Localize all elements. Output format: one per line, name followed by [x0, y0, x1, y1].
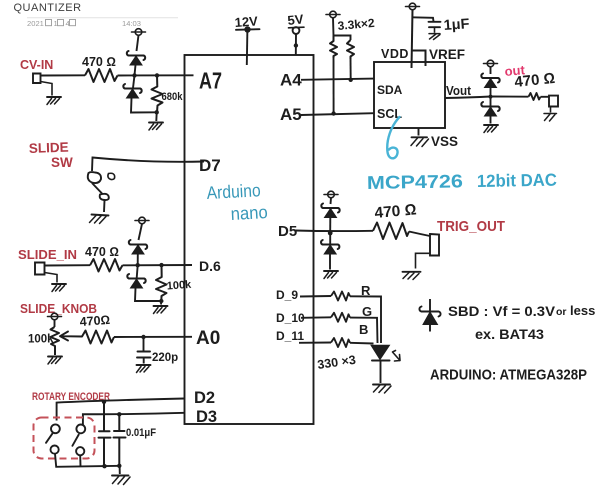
node junction dot 5V: [294, 43, 298, 47]
LED emission arrow: [393, 351, 401, 362]
svg-text:or: or: [556, 306, 567, 318]
wire D2 from encoder A: [57, 399, 185, 421]
wire node to D4 cathode: [137, 265, 138, 278]
diode D4 schottky low clamp: [127, 274, 145, 288]
wire D11 to R12: [299, 342, 331, 344]
diode D5l schottky low clamp: [481, 102, 499, 116]
ground TRIG jack: [403, 271, 421, 273]
svg-text:12bit DAC: 12bit DAC: [477, 170, 558, 191]
ground CV-IN jack: [47, 97, 61, 105]
power symbol trig clamp: [324, 191, 338, 198]
svg-text:VREF: VREF: [429, 47, 465, 62]
power symbol 5V: [289, 26, 305, 29]
svg-text:ex. BAT43: ex. BAT43: [475, 326, 544, 342]
wire C4 to ground: [434, 27, 436, 33]
ground 680k: [149, 123, 163, 131]
node junction dot 100k top: [159, 263, 163, 267]
svg-text:SBD : Vf = 0.3V: SBD : Vf = 0.3V: [448, 304, 555, 319]
ground slide switch: [92, 215, 109, 216]
node junction dot 220p: [141, 335, 145, 339]
node junction dot common A: [102, 464, 106, 468]
wire node to C1: [143, 337, 145, 351]
svg-text:D_9: D_9: [276, 288, 298, 302]
wire encoder A bottom to common: [55, 454, 121, 467]
wire R5 to A0: [114, 336, 192, 338]
title divider rule: [27, 17, 178, 19]
wire D7 to switch: [92, 158, 204, 172]
wire power to D1: [137, 35, 139, 51]
encoder contact B bottom: [76, 447, 84, 455]
svg-text:D_10: D_10: [276, 311, 305, 325]
wire 5V into board: [295, 34, 297, 55]
svg-text:QUANTIZER: QUANTIZER: [14, 2, 82, 14]
node junction dot trig clamp: [328, 231, 333, 236]
wire common to ground: [119, 466, 121, 474]
node junction dot 680k bottom: [155, 110, 159, 114]
svg-text:220p: 220p: [152, 352, 178, 364]
svg-text:100k: 100k: [166, 279, 192, 293]
wire node to D6l cathode: [329, 231, 331, 245]
resistor R4 100k vertical: [156, 265, 167, 301]
node junction dot at clamp: [132, 73, 136, 77]
svg-text:nano: nano: [230, 202, 268, 224]
LED1 cathode bar: [372, 360, 390, 362]
ground rotary encoder: [112, 475, 129, 477]
resistor R12 330 B: [331, 338, 350, 347]
svg-text:Vout: Vout: [446, 84, 472, 98]
svg-text:VSS: VSS: [431, 134, 458, 149]
resistor R5 470 zigzag: [82, 331, 114, 344]
ground 100k: [154, 306, 168, 314]
resistor R9 470 zigzag: [373, 223, 409, 240]
wire jack sleeve down: [550, 107, 552, 113]
node junction dot SDA pullup: [349, 78, 353, 82]
wire power to pot: [54, 320, 56, 327]
power symbol pullups: [326, 11, 340, 18]
resistor R8 470 small zigzag: [529, 93, 541, 100]
capacitor C1 220p: [137, 352, 151, 358]
diode D6l schottky low clamp: [321, 240, 339, 254]
power symbol out clamp: [484, 60, 498, 67]
svg-text:100k: 100k: [28, 334, 54, 346]
svg-text:SLIDE_IN: SLIDE_IN: [18, 247, 77, 262]
wire D5 to R9: [296, 230, 374, 233]
svg-text:14:03: 14:03: [122, 19, 141, 28]
wire A5 to SCL: [301, 113, 374, 115]
wire jack tip to R3: [45, 264, 91, 266]
ground LED: [373, 384, 390, 386]
encoder dashed outline: [34, 418, 95, 459]
wire D6u anode to node: [329, 218, 331, 232]
LED1 RGB triangle down: [372, 346, 390, 360]
jack J3 OUT: [549, 96, 558, 107]
svg-text:470 Ω: 470 Ω: [85, 245, 119, 259]
wire D4 anode down right to 100k bottom: [135, 288, 161, 301]
svg-text:MCP4726: MCP4726: [367, 170, 463, 193]
power symbol above D3: [135, 217, 149, 224]
wire A4 to SDA: [301, 79, 374, 80]
diode D5u schottky up clamp: [481, 74, 499, 88]
wire 12V into board: [246, 30, 249, 66]
encoder contact A bottom: [51, 446, 59, 454]
svg-text:SLIDE: SLIDE: [29, 140, 69, 156]
diode D6u schottky up clamp: [321, 204, 339, 218]
svg-text:470Ω: 470Ω: [79, 313, 110, 329]
ground 220p: [137, 365, 151, 373]
wire node to D5l cathode: [490, 97, 492, 107]
wire D6l anode to ground: [329, 254, 331, 270]
resistor R6 3.3k left: [330, 36, 337, 59]
node junction dot common B: [117, 464, 121, 468]
node junction dot 100k bottom: [159, 299, 163, 303]
node junction dot cap A: [102, 400, 106, 404]
switch SW1 pole contact: [88, 172, 101, 183]
Arduino nano IC body box U1: [185, 55, 314, 424]
wire pullup feed: [333, 18, 351, 40]
svg-text:SDA: SDA: [377, 83, 403, 97]
switch SW1 common contact: [100, 194, 109, 200]
switch SW1 arm: [92, 183, 103, 194]
svg-text:D_11: D_11: [276, 329, 304, 343]
svg-text:1μF: 1μF: [443, 16, 470, 34]
resistor R11 330 G: [331, 313, 350, 322]
wire power to D3: [139, 224, 143, 240]
wire D10 to R11: [301, 316, 331, 319]
encoder arm B: [72, 435, 78, 446]
wire R11 to LED: [350, 318, 378, 343]
capacitor C2 0.01uF A: [99, 403, 111, 466]
node junction dot at 680k: [155, 73, 159, 77]
jack J2 SLIDE_IN tip: [35, 263, 45, 275]
wire D5l anode to ground: [490, 116, 492, 124]
svg-text:Arduino: Arduino: [206, 180, 261, 203]
svg-text:A5: A5: [280, 105, 302, 124]
svg-text:5V: 5V: [287, 11, 305, 28]
resistor R2 680k vertical: [152, 75, 163, 112]
resistor R1 470 zigzag: [85, 69, 118, 82]
ground pot: [48, 357, 62, 365]
svg-text:D2: D2: [194, 389, 215, 407]
wire R3 to D6 input node: [123, 264, 193, 266]
node junction dot SCL pullup: [331, 111, 335, 115]
switch SW1 throw contact hook: [108, 173, 115, 179]
jack J1 CV-IN tip: [33, 74, 41, 84]
wire jack sleeve to ground: [41, 82, 53, 96]
ground C4: [429, 34, 440, 40]
wire VDD pin: [412, 10, 413, 68]
svg-text:A0: A0: [196, 328, 220, 349]
wire VREF bracket to VDD: [412, 51, 426, 67]
node junction dot cap B: [117, 412, 121, 416]
ground OUT jack: [544, 114, 557, 122]
potentiometer RV1 100k body: [51, 327, 60, 355]
ground trig clamp: [324, 271, 338, 279]
encoder contact B top: [76, 425, 85, 434]
svg-text:D5: D5: [278, 223, 297, 240]
svg-text:G: G: [362, 304, 372, 319]
wire power to D6u: [330, 198, 333, 204]
svg-text:470 Ω: 470 Ω: [82, 55, 116, 69]
MCP4726 IC body box U2: [374, 62, 445, 128]
encoder arm A: [46, 434, 52, 443]
note SBD diode symbol: [419, 299, 440, 332]
wire switch common to ground: [103, 201, 106, 213]
capacitor C3 0.01uF B: [114, 416, 126, 466]
node 12V rail bar and dot: [236, 28, 260, 31]
svg-text:D.6: D.6: [199, 258, 221, 274]
svg-text:ARDUINO: ATMEGA328P: ARDUINO: ATMEGA328P: [430, 367, 587, 384]
wire R10 to LED: [350, 296, 381, 343]
svg-text:A7: A7: [199, 68, 222, 94]
jack J4 TRIG: [430, 234, 439, 256]
resistor R3 470 zigzag: [90, 259, 123, 272]
svg-text:B: B: [359, 322, 368, 337]
wire R1 to clamp node: [118, 74, 194, 76]
wire R12 to LED: [350, 342, 374, 345]
wire jack sleeve to ground: [45, 273, 58, 283]
wire encoder B bottom to common: [79, 455, 81, 466]
svg-text:A4: A4: [280, 71, 302, 90]
power symbol above D1: [132, 29, 146, 36]
wire Vout to R8: [445, 97, 529, 99]
wire D1 anode to node: [135, 65, 136, 75]
pot wiper arrow: [60, 332, 82, 341]
resistor R10 330 R: [331, 292, 350, 301]
wire R8 to jack: [541, 96, 550, 98]
date stamp 2021-1-4 14:03: [27, 19, 141, 28]
wire VDD branch to C4: [412, 17, 434, 21]
ground VSS: [412, 136, 428, 138]
svg-text:less: less: [570, 303, 595, 318]
svg-text:VDD: VDD: [381, 47, 409, 61]
svg-text:680k: 680k: [162, 91, 184, 103]
node junction dot clamp slide: [136, 263, 140, 267]
power symbol VDD top: [406, 3, 420, 10]
wire jack tip to R1: [41, 74, 86, 76]
resistor R7 3.3k right: [347, 40, 354, 59]
annotation blue stroke 6: [387, 117, 399, 158]
wire 680k bottom to ground: [155, 112, 157, 121]
svg-text:0.01μF: 0.01μF: [126, 427, 156, 439]
encoder contact A top: [51, 424, 60, 433]
diode D1 schottky up clamp: [127, 51, 145, 65]
wire D3 anode to node: [137, 254, 139, 265]
svg-text:TRIG_OUT: TRIG_OUT: [437, 218, 505, 235]
svg-text:D7: D7: [199, 156, 221, 175]
diode D2 schottky low clamp: [123, 84, 141, 98]
capacitor C4 1uF: [429, 22, 441, 27]
wire jack sleeve to ground: [416, 253, 431, 268]
svg-text:SW: SW: [51, 155, 73, 170]
wire C1 to ground: [143, 358, 145, 364]
svg-text:D3: D3: [196, 408, 217, 426]
wire D3 from encoder B: [83, 413, 185, 426]
wire LED cathode to ground: [380, 361, 382, 384]
power symbol pot top: [48, 313, 62, 320]
ground SLIDE_IN jack: [52, 284, 66, 292]
wire VSS pin to ground: [418, 128, 420, 136]
wire D2 anode down and right to 680k bottom: [131, 98, 157, 113]
wire R9 to jack: [409, 232, 430, 237]
wire R6 to SCL line: [333, 58, 335, 114]
node junction dot out clamp: [489, 95, 493, 99]
wire power to D5u: [490, 67, 492, 74]
diode D3 schottky up clamp: [129, 240, 147, 254]
wire 100k bottom to ground: [160, 301, 162, 305]
svg-text:2021: 2021: [27, 19, 44, 28]
svg-text:CV-IN: CV-IN: [20, 58, 53, 72]
wire D9 to R10: [300, 295, 331, 298]
wire R7 to SDA line: [350, 59, 352, 80]
wire node to D2 cathode: [133, 75, 135, 88]
ground out clamp: [484, 125, 498, 133]
wire D5u anode to Vout node: [490, 88, 492, 97]
